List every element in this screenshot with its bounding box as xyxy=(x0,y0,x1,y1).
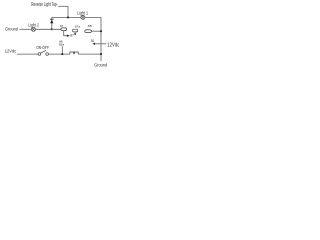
lamp L2 xyxy=(31,27,35,31)
svg-text:Light 2: Light 2 xyxy=(28,22,39,27)
diode D1 xyxy=(50,19,54,23)
svg-text:ON-OFF: ON-OFF xyxy=(36,45,49,50)
net arrow (points down) xyxy=(74,34,76,36)
svg-text:87: 87 xyxy=(70,33,74,37)
wire: corner down to Light 1 row xyxy=(67,6,69,17)
wire: tap label to corner xyxy=(58,5,68,7)
svg-text:Reverse Light Tap-: Reverse Light Tap- xyxy=(31,2,58,8)
wire: switch to coil xyxy=(49,53,70,55)
wire: connector 3 to right rail xyxy=(91,30,101,32)
wire: ground to lamp 2 xyxy=(20,28,32,30)
junction: bottom row on rail xyxy=(100,53,102,55)
net arrow (points right) xyxy=(67,35,70,37)
lamp L1 xyxy=(81,15,85,19)
connector 1 (oval) xyxy=(61,28,67,31)
svg-text:87a: 87a xyxy=(75,25,80,29)
wire: lamp 2 to connector 1 (middle row) xyxy=(35,28,61,30)
junction: diode joins middle row xyxy=(51,28,53,30)
connector 3 (rounded box) xyxy=(85,30,92,33)
wire: connector 1 down then right xyxy=(64,31,67,36)
svg-text:30: 30 xyxy=(91,39,95,43)
wire: label stub down to bottom row xyxy=(61,46,63,54)
wire: Light 1 row xyxy=(52,16,101,18)
connector 2 (rect) xyxy=(73,29,78,32)
wire: diode branch vertical xyxy=(51,17,53,29)
net arrow (points left) xyxy=(92,43,95,45)
svg-text:12Vdc: 12Vdc xyxy=(107,43,119,49)
wire: rail tap to 12Vdc right label xyxy=(101,43,106,45)
junction: stub on bottom row xyxy=(61,53,63,55)
wire: 12Vdc to switch xyxy=(17,53,38,55)
svg-text:12Vdc: 12Vdc xyxy=(5,48,17,53)
svg-text:Light 1: Light 1 xyxy=(77,10,88,15)
svg-text:85: 85 xyxy=(88,24,93,28)
switch SW1 xyxy=(38,50,48,55)
junction: connector 3 on rail xyxy=(100,30,102,32)
relay coil K1 xyxy=(70,52,78,54)
svg-text:Ground: Ground xyxy=(94,62,107,67)
wire: coil to right rail xyxy=(78,53,101,55)
junction: tap joins Light 1 row xyxy=(67,16,69,18)
right rail: from Light 1 row down to ground xyxy=(100,17,102,61)
wire: arrow to rail xyxy=(95,43,101,45)
svg-text:Ground: Ground xyxy=(5,27,18,33)
svg-text:85a: 85a xyxy=(59,43,64,47)
wire: connector 2 down stub xyxy=(74,32,76,34)
